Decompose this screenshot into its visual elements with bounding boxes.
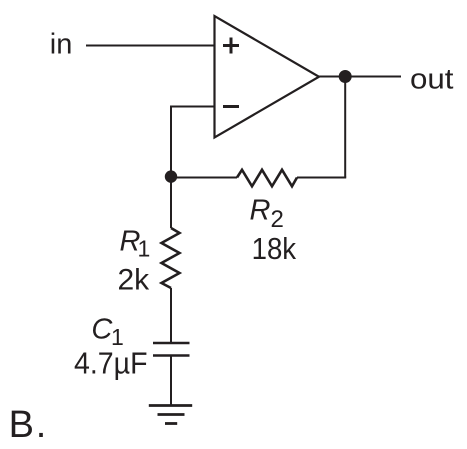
op-amp + input symbol — [223, 38, 239, 54]
wire: capacitor to ground — [170, 356, 172, 406]
svg-text:R: R — [250, 195, 271, 227]
ground symbol — [149, 406, 192, 424]
wire: feedback right segment — [297, 177, 346, 179]
svg-text:1: 1 — [138, 235, 151, 261]
output junction dot — [339, 70, 352, 83]
capacitor C1 bottom plate — [153, 354, 190, 357]
svg-text:out: out — [410, 64, 454, 96]
svg-text:4.7µF: 4.7µF — [74, 346, 148, 381]
svg-text:B.: B. — [9, 404, 47, 446]
wire: op-amp output — [319, 76, 401, 78]
capacitor C1 label — [91, 314, 123, 350]
wire: inverting input down to node A — [170, 106, 172, 229]
wire: feedback from output down — [344, 77, 346, 178]
node A junction dot — [165, 170, 177, 182]
wire: R2 to node A — [171, 177, 237, 179]
wire: input to op-amp + — [86, 45, 215, 47]
op-amp - input symbol — [223, 105, 239, 108]
resistor R2 label — [250, 195, 284, 233]
svg-text:2: 2 — [271, 206, 284, 233]
resistor R1 label — [120, 226, 151, 262]
op-amp U1 triangle — [215, 16, 320, 138]
svg-text:2k: 2k — [118, 264, 151, 297]
capacitor C1 top plate — [153, 342, 190, 345]
wire: R1 to capacitor C1 — [170, 288, 172, 343]
resistor R1 zigzag — [162, 228, 180, 288]
resistor R2 zigzag — [237, 170, 297, 187]
svg-text:in: in — [50, 29, 73, 61]
wire: inverting input horizontal — [171, 106, 215, 108]
svg-text:18k: 18k — [252, 232, 297, 266]
